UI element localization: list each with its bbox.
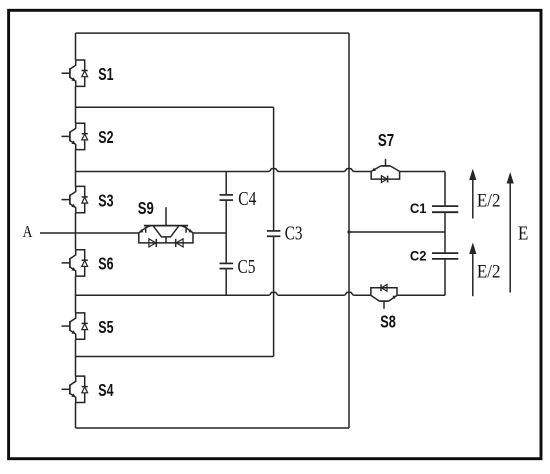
transistor S9 (bidirectional switch)	[139, 207, 193, 247]
svg-text:S5: S5	[98, 317, 113, 337]
capacitor C4	[220, 195, 234, 200]
transistor S1 (IGBT with antiparallel diode)	[62, 60, 88, 86]
wire left bus segment S4 bottom	[75, 403, 77, 429]
label C1	[410, 201, 427, 216]
wire bottom bus	[76, 427, 350, 429]
svg-text:C2: C2	[410, 249, 427, 264]
label S2	[98, 127, 113, 147]
label S1	[98, 64, 113, 84]
transistor S4 (IGBT with antiparallel diode)	[62, 376, 88, 402]
wire right vertical bus	[348, 33, 350, 428]
transistor S3 (IGBT with antiparallel diode)	[62, 186, 88, 212]
svg-text:E: E	[518, 224, 529, 245]
transistor S5 (IGBT with antiparallel diode)	[62, 313, 88, 339]
svg-text:E/2: E/2	[477, 192, 501, 212]
junction capacitor midpoint	[347, 230, 350, 233]
wire C1-C2 branch middle	[444, 213, 446, 253]
label C3	[285, 224, 303, 245]
wire C4-C5 branch upper	[225, 172, 227, 195]
wire S9 output to C4-C5 midpoint	[193, 232, 226, 234]
voltage arrow E	[507, 172, 514, 293]
transistor S8 (IGBT with antiparallel diode)	[371, 284, 397, 308]
svg-text:S9: S9	[138, 198, 154, 218]
label S9	[138, 198, 154, 218]
wire S7 right to C1 branch	[400, 171, 445, 173]
wire C3 branch lower	[273, 237, 275, 357]
svg-text:C4: C4	[238, 189, 256, 210]
wire S8 right to C2 branch	[397, 294, 445, 296]
wire rail below S5	[76, 356, 274, 358]
label S6	[98, 254, 113, 274]
wire top bus	[76, 32, 350, 34]
capacitor C1	[432, 206, 458, 212]
label C5	[238, 257, 256, 278]
svg-text:S2: S2	[98, 127, 113, 147]
wire C1-C2 branch upper	[444, 172, 446, 206]
wire rail below S2 to S7 left	[76, 169, 372, 172]
capacitor C3	[267, 231, 281, 236]
svg-text:E/2: E/2	[477, 263, 501, 283]
label S8	[380, 312, 396, 332]
wire C4-C5 branch lower	[225, 269, 227, 295]
transistor S6 (IGBT with antiparallel diode)	[62, 250, 88, 276]
node A	[23, 222, 33, 241]
svg-text:A: A	[23, 222, 33, 241]
svg-text:S4: S4	[98, 380, 113, 400]
wire C3 branch upper	[273, 107, 275, 230]
wire left bus segment S6-S5	[75, 276, 77, 313]
wire rail below S6 to S8 left	[76, 292, 371, 295]
wire C1-C2 branch lower	[444, 260, 446, 296]
label C4	[238, 189, 256, 210]
transistor S2 (IGBT with antiparallel diode)	[62, 123, 88, 149]
capacitor C2	[432, 253, 458, 259]
wire left bus segment S1-S2	[75, 87, 77, 124]
label S3	[98, 190, 113, 210]
svg-text:S6: S6	[98, 254, 113, 274]
label E/2 lower	[477, 263, 501, 283]
label S5	[98, 317, 113, 337]
wire C4-C5 branch middle	[225, 201, 227, 263]
wire left bus segment S2-S3	[75, 150, 77, 187]
label S4	[98, 380, 113, 400]
wire rail below S1	[76, 106, 274, 108]
wire left bus segment S5-S4	[75, 339, 77, 376]
label E/2 upper	[477, 192, 501, 212]
svg-text:S1: S1	[98, 64, 113, 84]
voltage arrow E/2 upper	[469, 169, 476, 219]
wire left bus segment S3-S6	[75, 213, 77, 250]
voltage arrow E/2 lower	[469, 243, 476, 297]
svg-text:S3: S3	[98, 190, 113, 210]
capacitor C5	[220, 263, 234, 268]
svg-text:C5: C5	[238, 257, 256, 278]
wire node A lead	[40, 232, 139, 234]
svg-text:S7: S7	[378, 130, 394, 150]
label S7	[378, 130, 394, 150]
label E	[518, 224, 529, 245]
svg-text:C1: C1	[410, 201, 427, 216]
transistor S7 (IGBT with antiparallel diode)	[371, 159, 399, 183]
label C2	[410, 249, 427, 264]
wire left bus segment S1 top	[75, 33, 77, 60]
svg-text:C3: C3	[285, 224, 303, 245]
wire capacitor midpoint to right bus	[349, 231, 445, 233]
svg-text:S8: S8	[380, 312, 396, 332]
